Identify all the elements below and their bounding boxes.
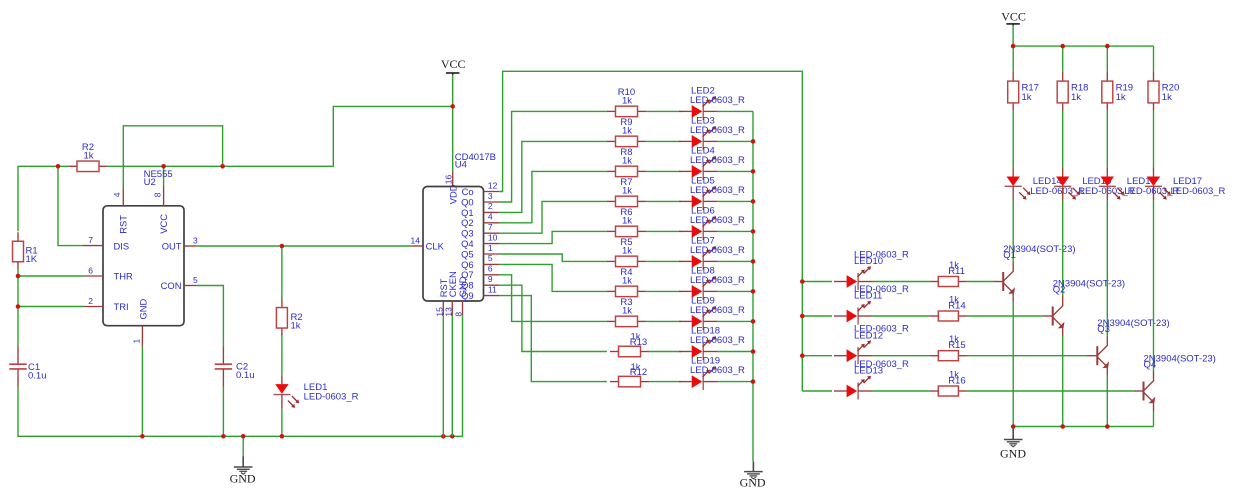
wire R7 to LED5 xyxy=(646,200,681,202)
power VCC VCC2 (right top) xyxy=(1006,24,1019,26)
wire R17 top feed xyxy=(1012,46,1014,72)
svg-text:1k: 1k xyxy=(1162,92,1172,103)
power VCC VCC1 (middle top) xyxy=(446,73,459,75)
wire Q4 emitter to gnd bus xyxy=(1153,411,1155,427)
svg-text:R11: R11 xyxy=(948,266,965,277)
ground GND3 (right) xyxy=(1004,427,1023,447)
LED LED13 xyxy=(834,376,873,400)
svg-text:GND: GND xyxy=(457,276,468,297)
junction R2 row / DIS branch xyxy=(56,164,61,169)
pin 6 Q7 (right) xyxy=(461,264,500,281)
pin 4 Q2 (right) xyxy=(461,212,500,229)
wire R10 to LED2 xyxy=(646,110,681,112)
svg-text:1K: 1K xyxy=(26,254,38,265)
svg-text:5: 5 xyxy=(488,253,493,263)
LED LED6 xyxy=(679,216,718,240)
svg-text:11: 11 xyxy=(488,284,497,294)
pin 2 TRI (left) xyxy=(83,296,129,312)
pin 16 VDD (top) xyxy=(444,171,459,204)
svg-text:LED-0603_R: LED-0603_R xyxy=(690,335,745,346)
wire VCC symbol drop to CD4017 VDD xyxy=(452,75,454,172)
pin 3 Q0 (right) xyxy=(461,191,500,208)
transistor Q4 2N3904 NPN xyxy=(1134,371,1156,411)
svg-text:1k: 1k xyxy=(1022,92,1032,103)
junction bottom bus / Q2 emitter xyxy=(1060,424,1065,429)
wire LED19 cathode to gnd bus xyxy=(718,381,753,383)
svg-text:GND: GND xyxy=(1000,446,1026,460)
svg-text:1k: 1k xyxy=(622,186,632,197)
svg-text:3: 3 xyxy=(193,235,198,245)
wire LED9 cathode to gnd bus xyxy=(718,320,753,322)
svg-text:CON: CON xyxy=(161,280,182,291)
ground GND2 (middle) xyxy=(744,461,763,479)
svg-text:12: 12 xyxy=(488,180,498,190)
wire R18 top feed xyxy=(1062,46,1064,72)
wire ground symbol stub left xyxy=(242,436,244,456)
svg-text:Q3: Q3 xyxy=(461,228,474,239)
svg-text:Q4: Q4 xyxy=(461,238,474,249)
pin 9 Q8 (right) xyxy=(461,274,500,291)
svg-text:LED10: LED10 xyxy=(854,256,883,267)
svg-text:LED-0603_R: LED-0603_R xyxy=(690,125,745,136)
svg-text:LED-0603_R: LED-0603_R xyxy=(690,245,745,256)
svg-text:LED-0603_R: LED-0603_R xyxy=(304,392,359,403)
junction cathode bus row LED9 xyxy=(751,319,756,324)
wire R15 to Q3 base xyxy=(967,355,1088,357)
svg-text:OUT: OUT xyxy=(162,241,182,252)
LED LED15 xyxy=(1054,168,1080,201)
wire 555 OUT to CD4017 CLK xyxy=(196,245,411,247)
wire LED8 cathode to gnd bus xyxy=(718,290,753,292)
wire LED16 cathode to Q3 collector xyxy=(1106,201,1108,336)
wire R1 bottom to C1 rail xyxy=(17,270,19,347)
LED LED9 xyxy=(679,306,718,330)
wire R2 to LED1 link xyxy=(281,336,283,375)
wire LED18 cathode to gnd bus xyxy=(718,351,753,353)
wire Q7 to R3 xyxy=(500,275,607,322)
junction cathode bus row LED4 xyxy=(751,169,756,174)
transistor Q3 2N3904 NPN xyxy=(1088,336,1110,376)
svg-text:1k: 1k xyxy=(622,156,632,167)
wire left bus to LED10 xyxy=(802,281,832,283)
LED LED12 xyxy=(834,340,873,364)
resistor R18 xyxy=(1057,72,1068,111)
pin 15 RST (bottom) xyxy=(434,278,449,316)
wire R20 to LED17 xyxy=(1153,111,1155,168)
pin 5 Q6 (right) xyxy=(461,253,500,270)
svg-text:13: 13 xyxy=(443,307,453,317)
wire TRI row xyxy=(18,306,83,308)
wire R6 to LED6 xyxy=(646,230,681,232)
wire DIS branch from R2 row xyxy=(58,166,83,245)
wire R2 row left to R1 rail xyxy=(18,166,68,231)
wire Q2 to R8 xyxy=(500,171,607,222)
wire R13 to LED18 xyxy=(649,351,681,353)
svg-text:LED-0603_R: LED-0603_R xyxy=(690,275,745,286)
wire LED13 cathode to R16 xyxy=(873,390,930,392)
wire Q1 to R9 xyxy=(500,141,607,212)
svg-text:Q5: Q5 xyxy=(461,248,474,259)
svg-text:VDD: VDD xyxy=(448,184,459,204)
svg-text:1k: 1k xyxy=(291,321,301,332)
resistor R16 xyxy=(930,386,967,396)
junction VCC / VDD node xyxy=(450,104,455,109)
LED LED11 xyxy=(834,301,873,325)
wire Q4 to R6 xyxy=(500,231,607,243)
pin 8 VCC (top) xyxy=(152,186,169,234)
wire right bottom gnd bus xyxy=(1013,426,1153,428)
LED LED10 xyxy=(834,266,873,290)
svg-text:1k: 1k xyxy=(622,276,632,287)
wire left bus to LED13 xyxy=(802,390,832,392)
wire R9 to LED3 xyxy=(646,140,681,142)
junction gnd bus / CKEN13 xyxy=(450,434,455,439)
wire left bus to LED11 xyxy=(802,315,832,317)
svg-text:Q1: Q1 xyxy=(461,207,474,218)
LED LED3 xyxy=(679,126,718,150)
wire R14 to Q2 base xyxy=(967,315,1043,317)
wire Q5 to R5 xyxy=(500,254,607,261)
svg-text:10: 10 xyxy=(488,232,498,242)
wire R19 top feed xyxy=(1106,46,1108,72)
svg-text:LED-0603_R: LED-0603_R xyxy=(1171,186,1226,197)
svg-text:R14: R14 xyxy=(948,301,965,312)
resistor R13 xyxy=(610,346,649,357)
svg-text:VCC: VCC xyxy=(441,57,466,71)
junction cathode bus row LED8 xyxy=(751,289,756,294)
wire LED cathode bus to GND2 xyxy=(752,111,754,461)
wire LED3 cathode to gnd bus xyxy=(718,140,753,142)
svg-text:LED-0603_R: LED-0603_R xyxy=(690,365,745,376)
resistor R5 xyxy=(607,256,646,267)
wire C2 to ground bus xyxy=(222,387,224,437)
junction cathode bus row LED6 xyxy=(751,229,756,234)
junction cathode bus row LED7 xyxy=(751,259,756,264)
wire Q8 to R13 xyxy=(500,285,607,351)
LED LED18 xyxy=(679,336,718,360)
LED LED1 xyxy=(273,375,299,409)
junction top bus / R19 xyxy=(1105,44,1110,49)
svg-text:7: 7 xyxy=(88,235,93,245)
wire R16 to Q4 base xyxy=(967,390,1134,392)
pin 1 Q5 (right) xyxy=(461,243,500,260)
svg-text:R12: R12 xyxy=(630,367,647,378)
resistor R20 xyxy=(1148,72,1159,111)
LED LED4 xyxy=(679,156,718,180)
junction R2 row / RST loop xyxy=(220,164,225,169)
pin 7 Q3 (right) xyxy=(461,222,500,239)
LED LED19 xyxy=(679,366,718,390)
capacitor C1 xyxy=(9,346,26,387)
junction gnd bus / LED1 xyxy=(280,434,285,439)
pin 5 CON (right) xyxy=(161,275,198,291)
resistor R17 xyxy=(1008,72,1019,111)
resistor R7 xyxy=(607,196,646,207)
wire 555 VCC pin8 drop xyxy=(163,166,165,186)
svg-text:TRI: TRI xyxy=(114,301,129,312)
junction top bus / R18 xyxy=(1060,44,1065,49)
junction R2 row / pin8 xyxy=(161,164,166,169)
resistor R9 xyxy=(607,136,646,147)
svg-text:3: 3 xyxy=(488,191,493,201)
svg-text:R13: R13 xyxy=(630,337,647,348)
op... 555 timer U2 body xyxy=(103,206,184,326)
svg-text:14: 14 xyxy=(411,236,421,246)
resistor R2 xyxy=(68,161,107,172)
wire LED1 cathode to ground bus xyxy=(281,409,283,436)
svg-text:1: 1 xyxy=(131,339,141,344)
svg-text:GND: GND xyxy=(138,298,149,319)
svg-text:Q2: Q2 xyxy=(461,217,474,228)
wire left bus to LED12 xyxy=(802,355,832,357)
svg-text:6: 6 xyxy=(488,264,493,274)
svg-text:16: 16 xyxy=(444,174,454,184)
LED LED16 xyxy=(1099,168,1125,201)
svg-text:CLK: CLK xyxy=(426,241,445,252)
junction OUT node xyxy=(280,244,285,249)
svg-text:LED-0603_R: LED-0603_R xyxy=(690,305,745,316)
resistor R15 xyxy=(930,351,967,361)
wire R18 to LED15 xyxy=(1062,111,1064,168)
resistor R14 xyxy=(930,311,967,321)
wire LED6 cathode to gnd bus xyxy=(718,230,753,232)
svg-text:LED11: LED11 xyxy=(854,291,882,302)
pin 12 Co (right) xyxy=(462,180,500,197)
LED LED8 xyxy=(679,276,718,300)
pin 8 GND (bottom) xyxy=(454,276,469,316)
resistor R12 xyxy=(610,376,649,387)
wire R11 to Q1 base xyxy=(967,281,994,283)
svg-text:4: 4 xyxy=(112,192,122,197)
wire Q6 to R4 xyxy=(500,264,607,291)
svg-text:0.1u: 0.1u xyxy=(28,370,47,381)
wire LED4 cathode to gnd bus xyxy=(718,170,753,172)
transistor Q2 2N3904 NPN xyxy=(1043,296,1065,336)
wire CKEN13 drop to gnd bus xyxy=(451,315,453,436)
wire R5 to LED7 xyxy=(646,260,681,262)
svg-text:6: 6 xyxy=(88,265,93,275)
svg-text:LED-0603_R: LED-0603_R xyxy=(690,185,745,196)
svg-text:R15: R15 xyxy=(948,340,965,351)
pin 14 CLK (left) xyxy=(411,236,445,252)
wire LED7 cathode to gnd bus xyxy=(718,260,753,262)
resistor R1 xyxy=(13,232,24,270)
svg-text:GND: GND xyxy=(740,476,766,490)
svg-text:Co: Co xyxy=(462,186,474,197)
wire VCC2 stem xyxy=(1012,26,1014,46)
pin 1 GND (bottom) xyxy=(131,298,148,346)
wire R12 to LED19 xyxy=(649,381,681,383)
svg-text:0.1u: 0.1u xyxy=(236,370,255,381)
wire RST loop pin4 to R2 row xyxy=(123,126,222,188)
svg-text:1k: 1k xyxy=(622,246,632,257)
svg-text:4: 4 xyxy=(488,212,493,222)
svg-text:Q6: Q6 xyxy=(461,259,474,270)
junction bottom bus / Q3 emitter xyxy=(1105,424,1110,429)
junction cathode bus row LED19 xyxy=(751,379,756,384)
junction TRI node xyxy=(16,304,21,309)
wire R4 to LED8 xyxy=(646,290,681,292)
wire R8 to LED4 xyxy=(646,170,681,172)
LED LED2 xyxy=(679,96,718,120)
resistor R3 xyxy=(607,316,646,327)
wire R17 to LED14 xyxy=(1012,111,1014,168)
svg-text:THR: THR xyxy=(114,271,133,282)
LED LED17 xyxy=(1145,168,1171,201)
resistor R6 xyxy=(607,226,646,237)
svg-text:U2: U2 xyxy=(144,177,156,188)
svg-text:VCC: VCC xyxy=(1001,10,1026,24)
junction bottom bus / Q1 emitter / GND3 xyxy=(1011,424,1016,429)
wire Q3 to R7 xyxy=(500,201,607,233)
svg-text:LED13: LED13 xyxy=(854,366,883,377)
svg-text:LED-0603_R: LED-0603_R xyxy=(690,95,745,106)
wire right top bus xyxy=(1013,45,1153,47)
wire R3 to LED9 xyxy=(646,320,681,322)
svg-text:VCC: VCC xyxy=(158,214,169,234)
wire LED5 cathode to gnd bus xyxy=(718,200,753,202)
pin 6 THR (left) xyxy=(83,265,133,281)
transistor Q1 2N3904 NPN xyxy=(993,262,1015,302)
svg-text:1k: 1k xyxy=(622,96,632,107)
wire LED17 cathode to Q4 collector xyxy=(1153,201,1155,372)
junction top bus / R17 xyxy=(1011,44,1016,49)
junction cathode bus row LED5 xyxy=(751,199,756,204)
pin 3 OUT (right) xyxy=(162,235,198,251)
svg-text:1k: 1k xyxy=(1071,92,1081,103)
resistor R11 xyxy=(930,277,967,287)
pin 2 Q1 (right) xyxy=(461,201,500,218)
wire R20 top feed xyxy=(1153,46,1155,72)
svg-text:7: 7 xyxy=(488,222,493,232)
LED LED7 xyxy=(679,246,718,270)
svg-text:LED12: LED12 xyxy=(854,330,883,341)
LED LED5 xyxy=(679,186,718,210)
pin 11 Q9 (right) xyxy=(461,284,500,301)
junction gnd bus / 555 GND xyxy=(140,434,145,439)
svg-text:Q3: Q3 xyxy=(1097,324,1110,335)
pin 13 CKEN (bottom) xyxy=(443,271,458,316)
junction gnd bus / C2 xyxy=(221,434,226,439)
resistor R19 xyxy=(1102,72,1113,111)
wire Q9 to R12 xyxy=(500,296,607,382)
pin 7 DIS (left) xyxy=(83,235,129,251)
svg-text:2: 2 xyxy=(88,296,93,306)
wire Q0 to R10 xyxy=(500,111,607,202)
resistor R8 xyxy=(607,166,646,177)
junction gnd bus / RST15 xyxy=(441,434,446,439)
pin 10 Q4 (right) xyxy=(461,232,500,249)
wire Co to top rail to right section bus xyxy=(500,71,803,391)
resistor R10 xyxy=(607,106,646,117)
wire VCC rail to R2 row (net VCC left) xyxy=(108,106,453,166)
svg-text:8: 8 xyxy=(454,312,464,317)
junction cathode bus row LED3 xyxy=(751,139,756,144)
resistor R2 xyxy=(276,299,287,337)
pin 4 RST (top) xyxy=(112,188,128,234)
svg-text:Q4: Q4 xyxy=(1144,360,1157,371)
svg-text:1: 1 xyxy=(488,243,493,253)
LED LED14 xyxy=(1005,168,1031,201)
svg-text:8: 8 xyxy=(152,192,162,197)
wire LED2 cathode to gnd bus xyxy=(718,110,753,112)
wire OUT branch down to R2 (second) xyxy=(281,246,283,299)
wire LED14 cathode to Q1 collector xyxy=(1012,201,1014,262)
wire Q2 emitter to gnd bus xyxy=(1062,336,1064,427)
svg-text:9: 9 xyxy=(488,274,493,284)
ground GND1 (left) xyxy=(234,456,253,474)
wire LED11 cathode to R14 xyxy=(873,315,930,317)
wire 555 GND pin1 to ground bus xyxy=(141,346,143,436)
junction gnd bus / GND symbol xyxy=(241,434,246,439)
wire Q1 emitter to gnd bus xyxy=(1012,302,1014,427)
wire CON to C2 xyxy=(196,286,223,347)
wire C1 to ground bus / bus to CD4017 GND pin xyxy=(18,315,463,436)
svg-text:1k: 1k xyxy=(622,216,632,227)
svg-text:U4: U4 xyxy=(455,159,467,170)
svg-text:1k: 1k xyxy=(83,150,93,161)
junction left bus / LED10 xyxy=(800,279,805,284)
junction THR node xyxy=(16,274,21,279)
resistor R4 xyxy=(607,286,646,297)
IC U4 CD4017B body xyxy=(423,187,484,302)
wire LED10 cathode to R11 xyxy=(873,281,930,283)
svg-text:1k: 1k xyxy=(622,126,632,137)
svg-text:1k: 1k xyxy=(1116,92,1126,103)
svg-text:LED-0603_R: LED-0603_R xyxy=(690,155,745,166)
svg-text:RST: RST xyxy=(118,215,129,234)
svg-text:Q0: Q0 xyxy=(461,196,474,207)
junction left bus / LED12 xyxy=(800,353,805,358)
svg-text:1k: 1k xyxy=(622,306,632,317)
wire LED15 cathode to Q2 collector xyxy=(1062,201,1064,297)
svg-text:LED-0603_R: LED-0603_R xyxy=(690,215,745,226)
svg-text:R16: R16 xyxy=(948,376,965,387)
svg-text:DIS: DIS xyxy=(114,240,130,251)
svg-text:Q1: Q1 xyxy=(1003,250,1016,261)
svg-text:Q2: Q2 xyxy=(1053,285,1066,296)
svg-text:5: 5 xyxy=(193,275,198,285)
junction left bus / LED11 xyxy=(800,314,805,319)
svg-text:GND: GND xyxy=(230,472,256,486)
junction cathode bus row LED18 xyxy=(751,349,756,354)
wire THR row xyxy=(18,275,83,277)
wire R19 to LED16 xyxy=(1106,111,1108,168)
svg-text:2: 2 xyxy=(488,201,493,211)
wire Q3 emitter to gnd bus xyxy=(1106,376,1108,427)
capacitor C2 xyxy=(215,346,232,387)
wire LED12 cathode to R15 xyxy=(873,355,930,357)
wire RST15 drop to gnd bus xyxy=(442,315,444,436)
